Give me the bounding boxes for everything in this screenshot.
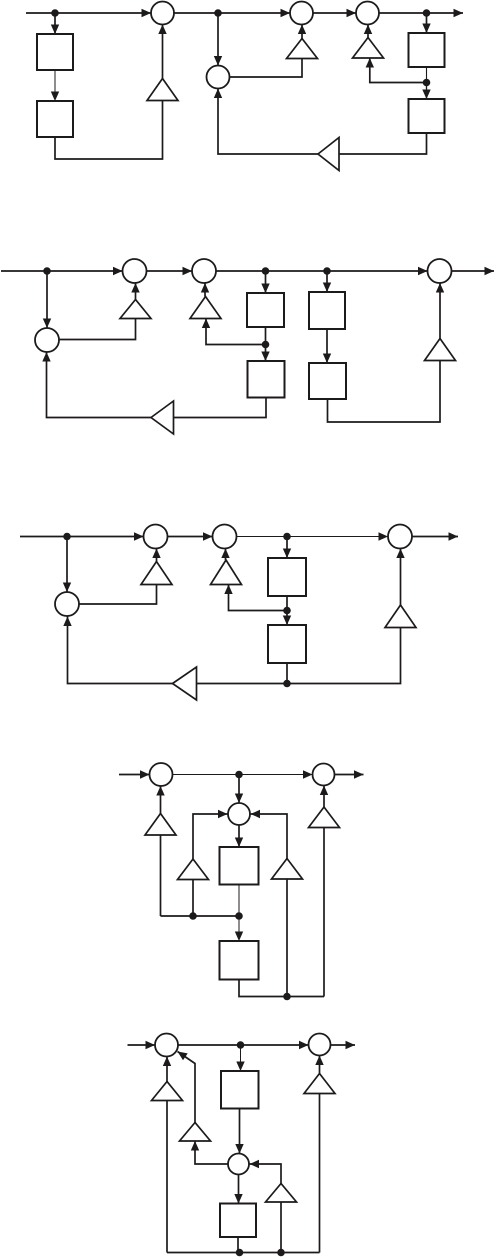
wire: node N3.2 down to delay D3.1 bbox=[283, 537, 291, 559]
wire: gain G5.3 to S5.3 bbox=[250, 1160, 282, 1184]
gain G1.4 bbox=[318, 138, 339, 171]
gain G1.2 bbox=[287, 39, 318, 59]
wire: input line to S4.1 bbox=[119, 770, 150, 778]
wire: node N4.3 up to gain G4.3 bbox=[286, 879, 288, 997]
delay block D1.4 bbox=[409, 99, 445, 133]
summing junction S2.4 bbox=[35, 328, 59, 352]
wire: delay D2.2 to gain G2.5 bbox=[174, 398, 267, 418]
gain G2.3 bbox=[425, 339, 456, 361]
summing junction S3.4 bbox=[55, 592, 79, 616]
wire: node N4.4 up to gain G4.2 bbox=[192, 880, 194, 917]
wire: gain G4.1 to S4.1 bbox=[156, 786, 164, 814]
wire: node N4.1 down to summing junction S4.3 bbox=[235, 775, 243, 804]
wire: delay D3.1 to node N3.4 bbox=[286, 596, 288, 611]
wire: S4.2 to output bbox=[335, 770, 364, 778]
wire: S1.3 to output bbox=[379, 9, 463, 17]
wire: delay D4.1 to node N4.2 (thin) bbox=[238, 885, 240, 917]
node N5.1 bbox=[237, 1041, 245, 1049]
wire: S3.2 to S3.3 (thin) bbox=[237, 532, 389, 540]
gain G4.1 bbox=[145, 814, 176, 836]
wire: node N1.2 down to summing junction S1.4 bbox=[214, 13, 222, 66]
gain G3.1 bbox=[141, 562, 172, 585]
wire: S2.1 to S2.2 bbox=[147, 267, 193, 275]
wire: gain G1.2 to S1.2 bbox=[298, 25, 306, 39]
wire: S1.2 to S1.3 bbox=[313, 9, 356, 17]
wire: S3.3 to output bbox=[412, 532, 458, 540]
wire: S5.3 to gain G5.2 bbox=[191, 1141, 228, 1164]
summing junction S1.3 bbox=[356, 2, 379, 25]
summing junction S2.3 bbox=[428, 259, 452, 283]
wire: gain G5.4 to S5.2 bbox=[315, 1056, 323, 1074]
summing junction S5.1 bbox=[155, 1034, 178, 1057]
wire: gain G2.1 to S2.1 bbox=[131, 283, 139, 300]
wire: S5.2 to output bbox=[331, 1041, 356, 1049]
wire: node N2.2 down to delay D2.1 bbox=[261, 271, 269, 293]
wire: gain G3.1 to S3.1 bbox=[152, 549, 160, 562]
wire: left rail up to gain G4.1 bbox=[160, 835, 162, 916]
wire: delay D2.4 to gain G2.3 bbox=[328, 361, 441, 423]
wire: gain G4.3 to S4.3 bbox=[251, 810, 288, 859]
wire: S2.2 to S2.3 bbox=[216, 267, 428, 275]
gain G3.5 bbox=[173, 667, 197, 700]
node N2.3 bbox=[323, 267, 331, 275]
wire: gain G5.2 to S5.1 (diagonal) bbox=[178, 1052, 196, 1123]
summing junction S1.2 bbox=[290, 2, 313, 25]
wire: delay D5.1 to summing junction S5.3 bbox=[235, 1109, 243, 1154]
wire: S3.4 to gain G3.1 bbox=[79, 585, 157, 605]
wire: input line to S3.1 bbox=[20, 532, 144, 540]
gain G2.2 bbox=[190, 297, 221, 319]
gain G4.2 bbox=[178, 859, 209, 880]
wire: node N1.1 down to delay D1.1 bbox=[51, 13, 59, 34]
wire: delay D1.4 to gain G1.4 bbox=[339, 133, 427, 154]
summing junction S5.3 bbox=[228, 1154, 249, 1175]
node N2.2 bbox=[262, 267, 270, 275]
wire: gain G5.1 to S5.1 bbox=[163, 1057, 171, 1082]
gain G5.3 bbox=[266, 1184, 297, 1203]
delay block D2.2 bbox=[248, 361, 285, 398]
wire: input line to summing junction S1.1 bbox=[26, 9, 151, 17]
gain G3.3 bbox=[385, 605, 416, 628]
node N1.1 bbox=[51, 9, 59, 17]
wire: node N1.4 to delay D1.4 bbox=[422, 83, 430, 100]
wire: delay D2.1 to node N2.4 bbox=[265, 327, 267, 345]
delay block D5.2 bbox=[220, 1204, 256, 1238]
gain G5.4 bbox=[304, 1074, 335, 1094]
wire: bottom rail up to gain G5.1 bbox=[166, 1101, 168, 1253]
node N2.1 bbox=[43, 267, 51, 275]
wire: gain G3.2 to S3.2 bbox=[221, 549, 229, 561]
wire: delay D1.1 to delay D1.2 bbox=[51, 70, 59, 101]
node N3.2 bbox=[283, 533, 291, 541]
node N4.4 bbox=[189, 912, 197, 920]
summing junction S4.2 bbox=[313, 764, 335, 786]
delay block D1.3 bbox=[409, 33, 445, 67]
wire: gain G3.3 to S3.3 bbox=[396, 549, 404, 606]
wire: node N5.1 to delay D5.1 (thin) bbox=[236, 1045, 244, 1071]
wire: bottom rail bbox=[167, 1252, 320, 1254]
gain G1.1 bbox=[147, 79, 178, 101]
wire: node N4.2 to delay D4.2 (thin) bbox=[235, 916, 243, 941]
gain G2.5 bbox=[151, 401, 174, 434]
wire: S5.3 to delay D5.2 bbox=[234, 1175, 242, 1204]
wire: input line to S5.1 bbox=[128, 1041, 156, 1049]
delay block D2.1 bbox=[247, 293, 284, 327]
wire: node N5.3 up to gain G5.3 bbox=[280, 1202, 282, 1253]
wire: node N3.5 to gain G3.5 bbox=[197, 683, 288, 685]
wire: gain G2.5 to S2.4 bbox=[42, 352, 151, 418]
node N4.2 bbox=[235, 912, 243, 920]
wire: gain G1.4 to S1.4 bbox=[214, 89, 318, 155]
summing junction S2.1 bbox=[123, 259, 147, 283]
delay block D1.1 bbox=[37, 34, 73, 70]
wire: gain G1.3 to S1.3 bbox=[364, 25, 372, 38]
gain G5.2 bbox=[180, 1123, 211, 1142]
summing junction S1.4 bbox=[207, 66, 230, 89]
wire: S1.1 to S1.2 bbox=[174, 9, 290, 17]
node N3.5 bbox=[283, 680, 291, 688]
summing junction S3.1 bbox=[144, 525, 168, 549]
gain G5.1 bbox=[152, 1082, 183, 1101]
wire: node N1.4 to gain G1.3 bbox=[366, 58, 427, 83]
wire: delay D4.2 to bottom rail bbox=[239, 980, 324, 997]
wire: S3.1 to S3.2 bbox=[168, 532, 213, 540]
delay block D1.2 bbox=[37, 101, 73, 137]
wire: gain G4.2 to S4.3 bbox=[193, 810, 228, 859]
delay block D2.4 bbox=[309, 363, 346, 399]
wire: S4.3 to delay D4.1 bbox=[235, 825, 243, 847]
wire: delay D2.3 to delay D2.4 bbox=[323, 329, 331, 363]
delay block D2.3 bbox=[309, 292, 345, 329]
wire: gain G3.5 to S3.4 bbox=[63, 617, 172, 684]
wire: bottom rail up to gain G5.4 bbox=[319, 1094, 321, 1253]
summing junction S4.1 bbox=[150, 763, 173, 786]
delay block D4.1 bbox=[220, 847, 259, 885]
wire: node N2.4 to delay D2.2 bbox=[261, 345, 269, 362]
wire: delay D5.2 to bottom rail bbox=[237, 1237, 239, 1253]
wire: node N2.1 down to summing junction S2.4 bbox=[43, 271, 51, 328]
summing junction S5.2 bbox=[309, 1034, 331, 1056]
delay block D5.1 bbox=[221, 1071, 259, 1109]
wire: S4.1 to S4.2 (thin) bbox=[173, 770, 313, 778]
node N5.2 bbox=[236, 1249, 244, 1257]
wire: S2.4 to gain G2.1 bbox=[59, 319, 136, 340]
wire: input line to S2.1 bbox=[1, 267, 123, 275]
wire: gain G1.1 to S1.1 bbox=[158, 25, 166, 79]
wire: node N2.3 down to delay D2.3 bbox=[323, 271, 331, 292]
summing junction S3.2 bbox=[213, 525, 237, 549]
wire: node N1.3 down to delay D1.3 bbox=[422, 13, 430, 33]
wire: node N3.1 down to summing junction S3.4 bbox=[63, 537, 71, 593]
delay block D3.1 bbox=[268, 558, 306, 596]
summing junction S3.3 bbox=[388, 525, 412, 549]
node N4.3 bbox=[283, 993, 291, 1001]
node N3.4 bbox=[283, 607, 291, 615]
gain G2.1 bbox=[120, 300, 151, 319]
node N5.3 bbox=[277, 1249, 285, 1257]
wire: S2.3 to output bbox=[452, 267, 495, 275]
node N2.4 bbox=[262, 341, 270, 349]
wire: bottom rail up to gain G4.4 bbox=[323, 828, 325, 997]
node N4.1 bbox=[235, 771, 243, 779]
wire: node N3.4 to gain G3.2 bbox=[224, 585, 287, 611]
gain G1.3 bbox=[353, 38, 384, 59]
wire: S1.4 to gain G1.2 bbox=[230, 59, 303, 78]
gain G3.2 bbox=[211, 560, 242, 585]
wire: node N4.2 left rail bbox=[161, 915, 240, 917]
node N1.4 bbox=[423, 79, 431, 87]
summing junction S2.2 bbox=[192, 259, 216, 283]
wire: gain G2.2 to S2.2 bbox=[201, 283, 209, 297]
wire: gain G2.3 to S2.3 bbox=[436, 283, 444, 339]
delay block D4.2 bbox=[220, 941, 259, 980]
node N1.2 bbox=[214, 9, 222, 17]
node N3.1 bbox=[63, 533, 71, 541]
summing junction S4.3 bbox=[228, 803, 250, 825]
summing junction S1.1 bbox=[151, 2, 174, 25]
gain G4.3 bbox=[272, 859, 303, 880]
wire: delay D1.2 to gain G1.1 bbox=[55, 101, 163, 160]
wire: S5.1 to S5.2 bbox=[178, 1041, 309, 1049]
wire: gain G4.4 to S4.2 bbox=[320, 786, 328, 808]
node N1.3 bbox=[423, 9, 431, 17]
wire: node N3.4 to delay D3.2 bbox=[283, 611, 291, 626]
gain G4.4 bbox=[309, 807, 340, 828]
wire: delay D1.3 to node N1.4 bbox=[426, 67, 428, 83]
wire: node N2.4 to gain G2.2 bbox=[202, 319, 266, 345]
delay block D3.2 bbox=[268, 625, 306, 663]
wire: gain G3.3 branch down to node N3.5 bbox=[287, 628, 401, 684]
wire: delay D3.2 to node N3.5 bbox=[286, 663, 288, 684]
